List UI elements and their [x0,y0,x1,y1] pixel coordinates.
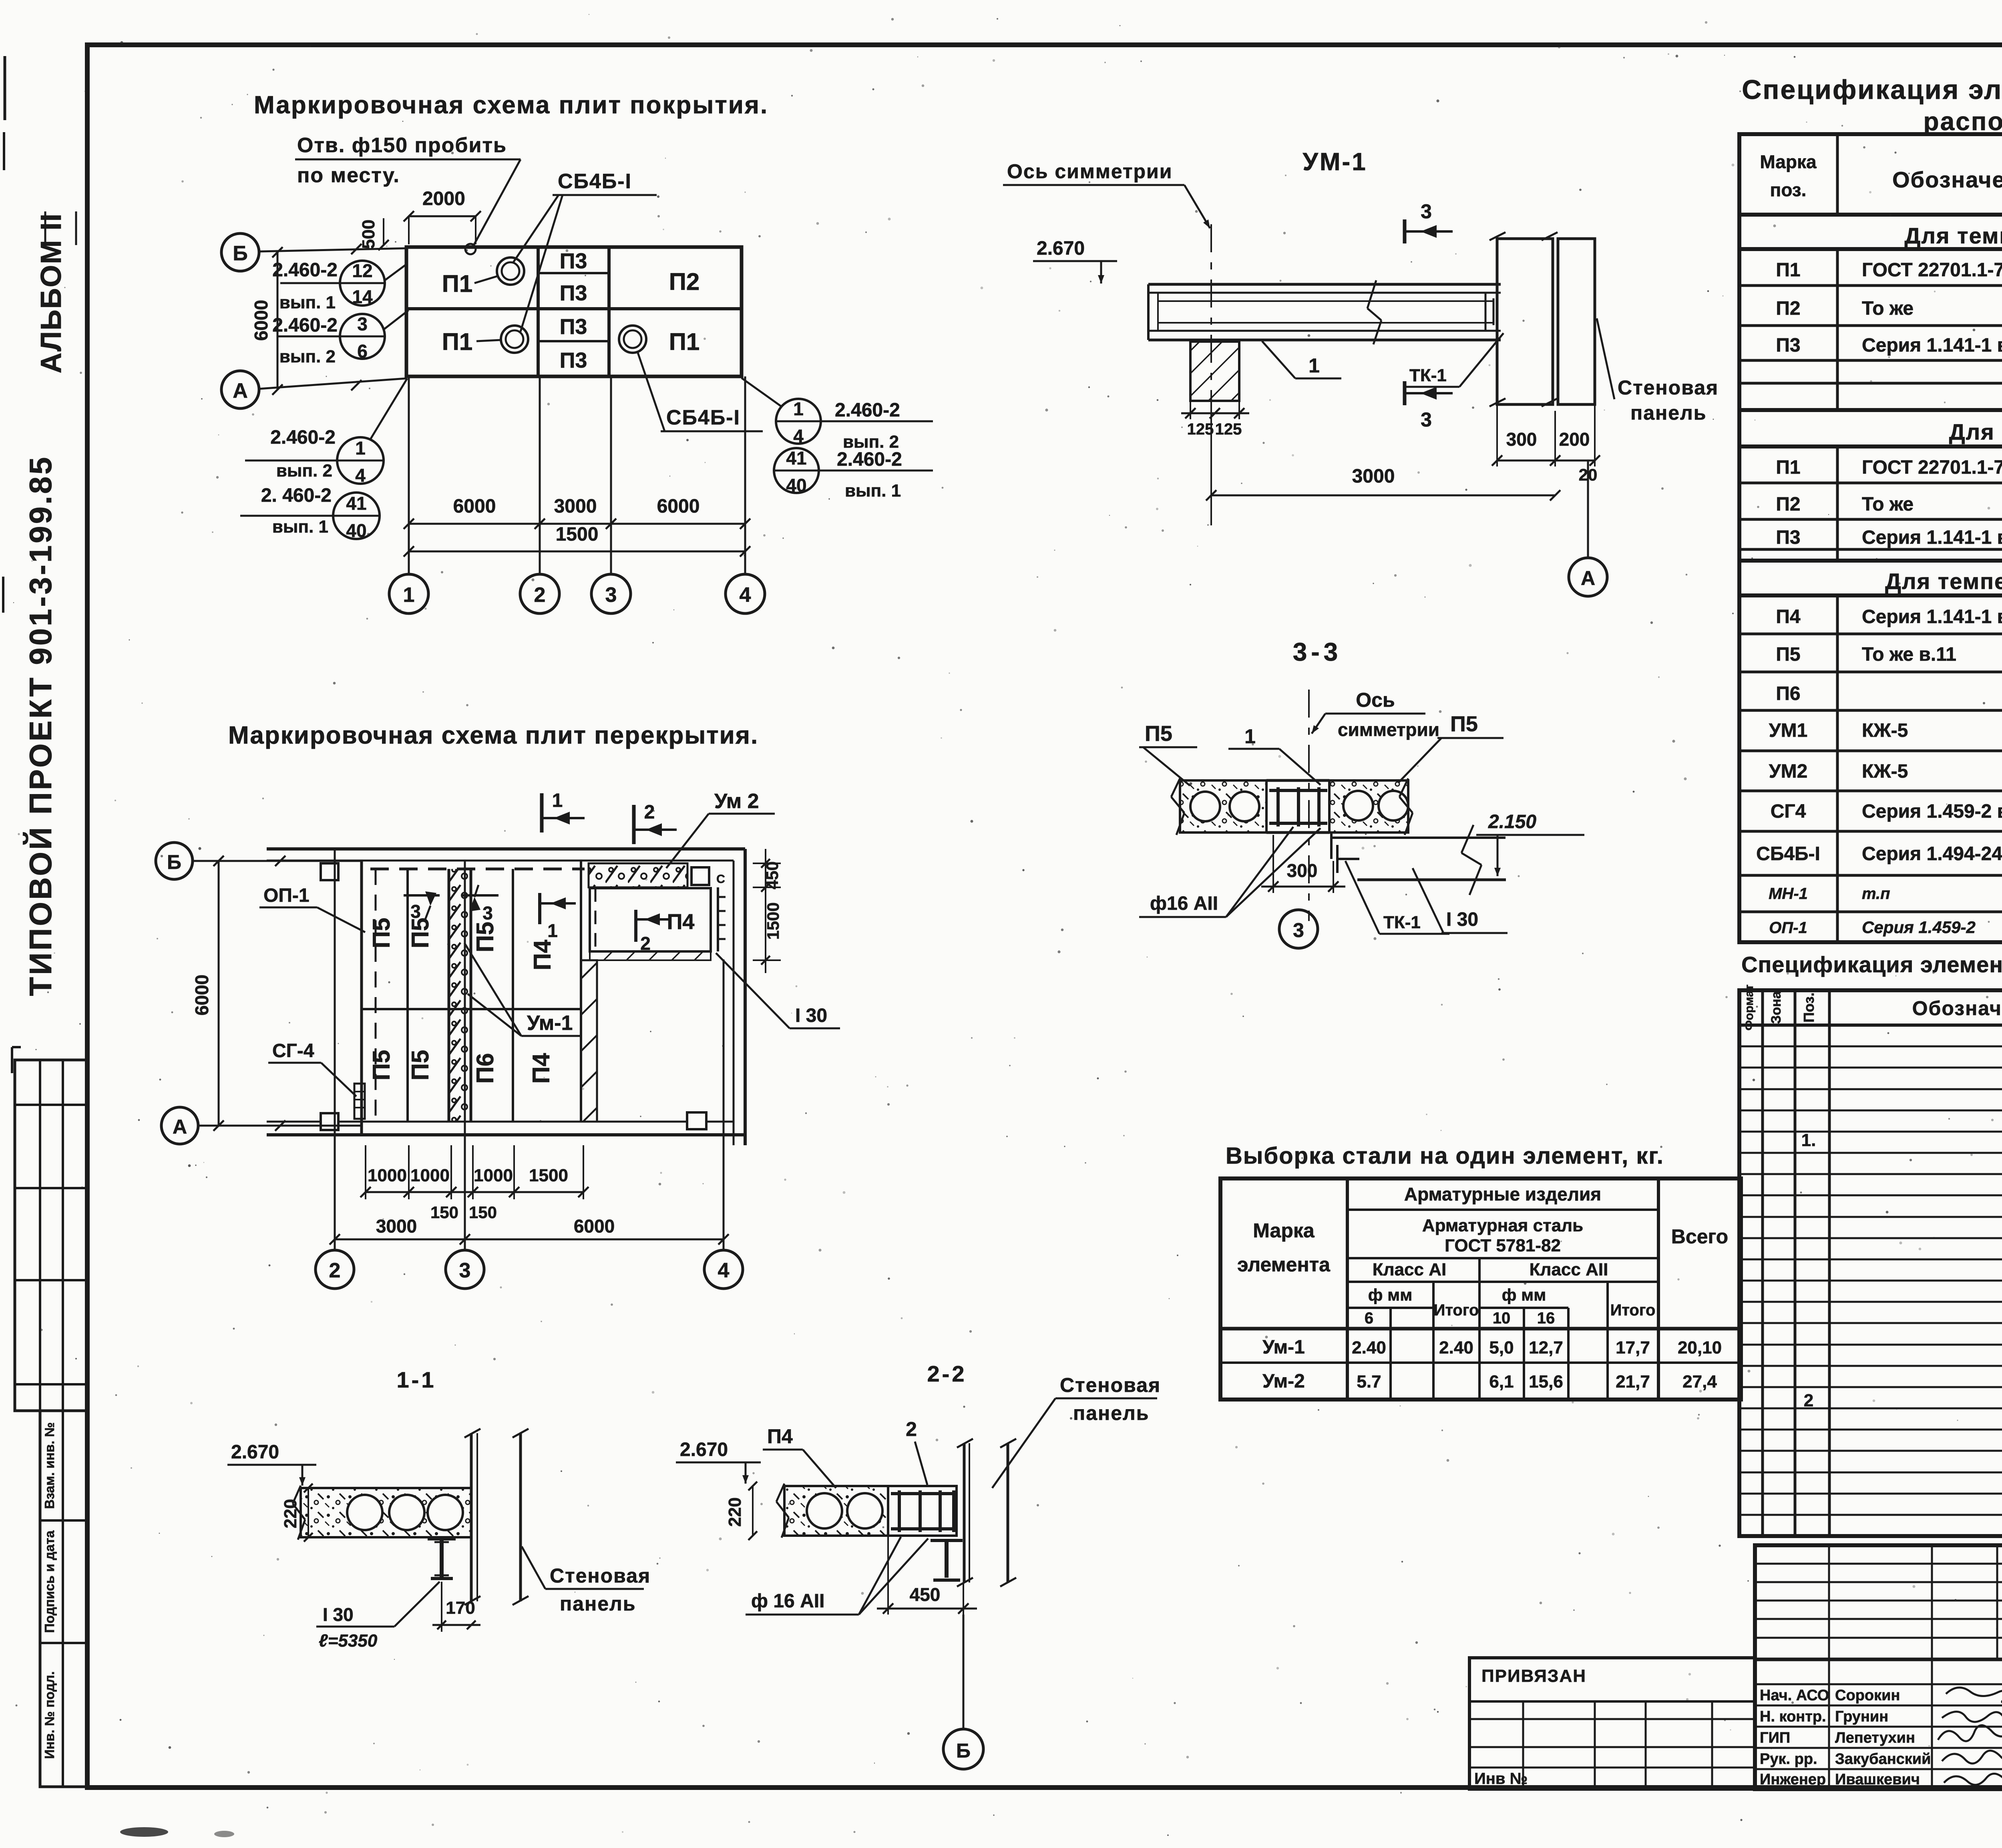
svg-text:Стеновая: Стеновая [550,1564,651,1587]
svg-text:П1: П1 [1776,259,1800,281]
svg-text:Стеновая: Стеновая [1060,1374,1161,1396]
svg-text:1: 1 [547,920,558,941]
svg-text:Класс АI: Класс АI [1373,1260,1446,1279]
svg-text:П1: П1 [1776,457,1800,478]
svg-text:Серия 1.494-24 в.1: Серия 1.494-24 в.1 [1862,843,2002,865]
plan2 mid line [362,1008,581,1010]
svg-text:ф16 АII: ф16 АII [1150,893,1218,914]
signatures [1946,1687,2002,1704]
svg-text:Ось симметрии: Ось симметрии [1007,160,1173,183]
svg-text:Н. контр.: Н. контр. [1760,1708,1826,1725]
dims 300 200 20 [1496,404,1498,467]
svg-text:П4: П4 [528,1053,555,1084]
svg-text:1000: 1000 [474,1166,513,1185]
grid verticals plan1 [408,376,410,574]
svg-text:вып. 1: вып. 1 [845,481,901,501]
svg-text:Серия 1.141-1 в.10: Серия 1.141-1 в.10 [1862,527,2002,548]
svg-text:1-1: 1-1 [397,1367,436,1392]
svg-text:панель: панель [1630,402,1707,424]
svg-text:АЛЬБОМ II: АЛЬБОМ II [35,213,67,374]
title block frame [1755,1545,2002,1789]
svg-text:СГ4: СГ4 [1771,801,1806,822]
svg-text:Ум-1: Ум-1 [1262,1337,1305,1358]
svg-text:4: 4 [355,465,366,486]
svg-text:125: 125 [1187,420,1214,438]
svg-text:2.670: 2.670 [680,1439,728,1460]
svg-text:ГОСТ 22701.1-77: ГОСТ 22701.1-77 [1862,259,2002,281]
svg-text:П1: П1 [442,270,473,297]
svg-text:ф 16 АII: ф 16 АII [751,1591,824,1612]
svg-text:П3: П3 [1776,335,1800,356]
MN-1 embedded mark right [717,887,719,951]
svg-text:6000: 6000 [453,496,496,517]
section flag 1 above plan2 [540,793,544,833]
svg-text:2.40: 2.40 [1352,1338,1386,1357]
svg-text:3: 3 [410,901,421,922]
svg-text:поз.: поз. [1770,179,1807,200]
svg-text:3000: 3000 [376,1216,417,1237]
monolith rebar (3-3) [1266,779,1329,782]
svg-text:Ум-1: Ум-1 [527,1011,573,1035]
svg-text:П3: П3 [560,348,587,372]
svg-text:П2: П2 [1776,494,1800,515]
svg-text:П6: П6 [1776,683,1800,704]
left staff column boxes [15,1060,87,1411]
spec1 frame [1739,134,2002,942]
svg-text:12: 12 [352,260,372,281]
bottom-left smudge [120,1827,168,1837]
svg-text:Маркировочная схема плит: Маркировочная схема плит перекрытия. [228,722,758,749]
plan2 slab dividers [406,869,409,1122]
svg-text:I 30: I 30 [1446,909,1478,930]
svg-text:Инв. № подл.: Инв. № подл. [42,1671,57,1759]
svg-text:Класс АII: Класс АII [1530,1260,1608,1279]
vertical hatched strip right of slabs [581,960,597,1122]
svg-text:УМ1: УМ1 [1769,720,1808,741]
svg-text:симметрии: симметрии [1338,719,1439,740]
svg-text:вып. 2: вып. 2 [279,347,336,366]
svg-text:Спецификация элементов монол: Спецификация элементов монолитных констр… [1741,952,2002,977]
svg-text:2-2: 2-2 [927,1361,967,1386]
svg-text:Зона: Зона [1769,991,1784,1024]
white column squares [321,863,338,880]
svg-text:П5: П5 [1776,644,1800,665]
svg-text:П5: П5 [472,922,498,953]
axis circle A [221,371,259,408]
svg-text:ПРИВЯЗАН: ПРИВЯЗАН [1481,1666,1586,1686]
svg-text:т.п: т.п [1862,885,1890,903]
bottom dim chain 1000s [365,1145,366,1199]
svg-text:3000: 3000 [1352,466,1395,487]
svg-text:10: 10 [1493,1309,1511,1327]
svg-text:150: 150 [469,1203,497,1222]
slab 2-2 monolith rebar part [888,1486,957,1536]
svg-text:2000: 2000 [422,188,465,209]
svg-text:300: 300 [1506,429,1537,450]
svg-text:Взам. инв. №: Взам. инв. № [42,1422,57,1509]
svg-text:То же: То же [1862,494,1914,515]
svg-text:ГОСТ 5781-82: ГОСТ 5781-82 [1445,1236,1561,1255]
svg-text:1: 1 [1309,354,1320,377]
svg-text:Серия 1.459-2 в.3: Серия 1.459-2 в.3 [1862,801,2002,822]
svg-text:Подпись и дата: Подпись и дата [42,1530,57,1633]
svg-text:Отв. ф150 пробить: Отв. ф150 пробить [297,134,507,157]
plan2 bottom wall band [267,1133,745,1136]
hatch band below P4 box [590,951,711,960]
svg-text:41: 41 [786,448,806,469]
svg-text:Формат: Формат [1743,984,1756,1030]
svg-text:2: 2 [644,802,655,823]
staff rows [1755,1683,2002,1685]
svg-text:2.670: 2.670 [1037,238,1085,259]
svg-text:I 30: I 30 [323,1604,354,1625]
svg-text:3: 3 [459,1259,471,1282]
svg-text:15,6: 15,6 [1529,1372,1563,1392]
svg-text:Обозначение: Обозначение [1912,997,2002,1020]
wall panel right [1558,239,1595,404]
svg-text:1: 1 [793,398,804,419]
svg-text:1: 1 [355,438,366,458]
SG-4 ladder symbol [354,1084,365,1119]
svg-text:П5: П5 [368,1050,395,1081]
I-beam (2-2) [931,1539,963,1542]
plan2 left wall [360,861,363,1135]
svg-text:2.460-2: 2.460-2 [272,315,338,336]
svg-text:4: 4 [718,1259,730,1282]
section mark 3 top [1403,219,1407,243]
svg-text:1000: 1000 [410,1166,450,1185]
svg-text:3000: 3000 [554,496,597,517]
stakan circles [497,257,524,285]
svg-text:6: 6 [1365,1309,1373,1327]
svg-text:5,0: 5,0 [1489,1338,1514,1357]
axis line B [259,248,406,251]
svg-text:Серия 1.141-1 в.10: Серия 1.141-1 в.10 [1862,335,2002,356]
plan2 top wall band [267,847,745,851]
P4 box top right [590,888,711,951]
svg-text:панель: панель [560,1593,636,1615]
svg-text:вып. 1: вып. 1 [279,293,336,312]
svg-text:Для температуры tн=-20°С ;: Для температуры tн=-20°С ; -30°С ; - 40°… [1885,569,2002,594]
svg-text:Для температуры tн=-40°С.: Для температуры tн=-40°С. [1949,419,2002,444]
svg-text:ТК-1: ТК-1 [1383,913,1421,932]
svg-text:Инженер: Инженер [1760,1771,1826,1788]
svg-text:Марка: Марка [1760,151,1817,172]
svg-text:20,10: 20,10 [1678,1338,1722,1357]
svg-text:П3: П3 [1776,527,1800,548]
grid verticals plan2 [334,848,336,1250]
svg-text:3: 3 [1421,200,1432,223]
svg-text:3: 3 [1421,408,1432,431]
svg-text:3: 3 [482,903,493,923]
svg-text:П4: П4 [529,939,556,970]
svg-text:4: 4 [740,583,751,607]
svg-text:16: 16 [1537,1309,1555,1327]
svg-text:П2: П2 [1776,298,1800,319]
svg-text:А: А [173,1116,187,1138]
svg-text:Арматурная сталь: Арматурная сталь [1422,1216,1583,1235]
svg-text:ОП-1: ОП-1 [263,885,310,906]
slab 1-1 [301,1488,471,1537]
svg-text:Спецификация элементов к ма: Спецификация элементов к маркировочным с… [1742,74,2002,105]
svg-text:Обозначение: Обозначение [1892,167,2002,192]
svg-text:2: 2 [906,1418,917,1440]
svg-text:УМ2: УМ2 [1769,761,1808,782]
svg-text:Ось: Ось [1356,689,1395,711]
axis of symmetry line [1210,224,1212,525]
plan2 right wall [733,861,735,1145]
wall 2-2 [963,1443,966,1583]
svg-text:6000: 6000 [251,300,271,341]
dim chain 6000 3000 6000 [409,523,745,525]
svg-text:Нач. АСО: Нач. АСО [1760,1687,1829,1704]
slab 2-2 hollow part [784,1486,888,1536]
bottom dim chain 3000 6000 [335,1239,724,1241]
svg-text:1500: 1500 [764,902,782,939]
svg-text:220: 220 [725,1497,745,1526]
svg-text:Б: Б [167,851,181,873]
svg-text:2.460-2: 2.460-2 [272,259,338,281]
svg-text:Для температуры tн=-20°С,: Для температуры tн=-20°С, tн=-30°С [1904,223,2002,248]
svg-text:П6: П6 [472,1053,498,1084]
svg-text:Грунин: Грунин [1835,1708,1888,1725]
grid circle 3 (3-3) [1279,910,1318,948]
svg-text:220: 220 [281,1499,300,1528]
hole marker [465,244,476,254]
svg-text:вып. 2: вып. 2 [276,461,332,481]
svg-text:2.40: 2.40 [1439,1338,1473,1357]
scan edge marks left [4,56,6,120]
svg-text:200: 200 [1559,429,1590,450]
svg-text:3-3: 3-3 [1293,637,1342,666]
svg-text:6000: 6000 [657,496,700,517]
wall 1-1 [470,1433,473,1601]
svg-text:2: 2 [1804,1391,1813,1410]
callout 1/4 right [776,399,821,444]
svg-text:расположенным на листе.: расположенным на листе. [1923,107,2002,136]
svg-text:Сорокин: Сорокин [1835,1687,1900,1704]
svg-text:П1: П1 [442,328,473,355]
svg-text:Рук. рр.: Рук. рр. [1760,1751,1817,1768]
svg-text:панель: панель [1073,1402,1150,1424]
svg-text:ГИП: ГИП [1760,1729,1790,1746]
svg-text:СБ4Б-I: СБ4Б-I [666,406,740,429]
svg-text:12,7: 12,7 [1529,1338,1563,1357]
svg-text:Марка: Марка [1253,1219,1315,1242]
staff label cells [40,1411,87,1787]
svg-text:1000: 1000 [368,1166,407,1185]
svg-text:ГОСТ 22701.1-77: ГОСТ 22701.1-77 [1862,457,2002,478]
svg-text:То же: То же [1862,298,1914,319]
plan1 outline [406,247,742,376]
svg-text:ф мм: ф мм [1502,1285,1546,1304]
svg-text:П5: П5 [407,1050,434,1081]
svg-text:А: А [233,379,248,402]
grid circles 2 3 4 (plan2) [316,1250,354,1289]
svg-text:17,7: 17,7 [1616,1338,1650,1357]
svg-text:Б: Б [956,1739,971,1762]
svg-text:I 30: I 30 [795,1005,827,1026]
title block left small grid [1755,1563,2002,1565]
svg-text:П5: П5 [1450,712,1478,736]
svg-text:КЖ-5: КЖ-5 [1862,761,1908,782]
svg-text:СГ-4: СГ-4 [272,1040,314,1062]
monolith slab band [1148,283,1501,286]
grid circles 1 2 3 4 [389,574,428,613]
spec2 frame [1739,990,2002,1536]
svg-text:41: 41 [346,493,366,514]
svg-text:6: 6 [357,341,368,362]
svg-text:2: 2 [329,1259,341,1282]
svg-text:2.150: 2.150 [1488,811,1536,833]
svg-text:Лепетухин: Лепетухин [1835,1729,1915,1746]
svg-text:150: 150 [430,1203,458,1222]
svg-text:Стеновая: Стеновая [1618,376,1719,399]
svg-text:Серия 1.459-2: Серия 1.459-2 [1862,918,1976,937]
svg-text:П3: П3 [560,249,587,273]
section flag 2 above plan2 [632,805,636,844]
section mark 3 bottom [1403,381,1407,405]
section cut 1 mark inside plan2 [538,893,541,924]
svg-text:по месту.: по месту. [297,164,400,187]
svg-text:3: 3 [357,314,368,334]
svg-text:П3: П3 [560,281,587,305]
svg-text:27,4: 27,4 [1682,1372,1717,1392]
svg-text:6,1: 6,1 [1489,1372,1514,1392]
svg-text:Итого: Итого [1434,1301,1479,1319]
svg-text:125: 125 [1215,420,1242,438]
svg-text:СБ4Б-I: СБ4Б-I [1756,843,1820,865]
svg-text:Ум-2: Ум-2 [1262,1371,1305,1392]
svg-text:Закубанский: Закубанский [1835,1751,1931,1768]
dim 3000 [1210,401,1212,501]
svg-text:300: 300 [1287,860,1318,881]
dims 125 125 [1190,401,1191,419]
vyborka table frame [1220,1178,1741,1400]
svg-text:6000: 6000 [574,1216,615,1237]
svg-text:С: С [716,873,725,886]
callout 41/40 right [774,448,819,493]
svg-text:2.460-2: 2.460-2 [835,400,900,421]
svg-text:КЖ-5: КЖ-5 [1862,720,1908,741]
hatched support column [1190,342,1239,401]
svg-text:14: 14 [352,286,373,307]
svg-text:Поз.: Поз. [1801,992,1817,1022]
plan2 dashed top line [370,868,585,871]
svg-text:2: 2 [534,583,546,607]
svg-text:5.7: 5.7 [1357,1372,1381,1392]
svg-text:ТК-1: ТК-1 [1409,366,1447,385]
svg-text:40: 40 [786,475,806,496]
grid line to circle B [963,1615,965,1729]
axis line A [259,378,406,389]
svg-text:3: 3 [1293,919,1304,941]
svg-text:УМ-1: УМ-1 [1303,148,1367,176]
dim chain 15000 [409,551,745,553]
svg-text:ℓ=5350: ℓ=5350 [319,1631,378,1651]
svg-text:П4: П4 [667,910,695,934]
svg-text:МН-1: МН-1 [1769,885,1808,903]
svg-text:П3: П3 [560,315,587,339]
svg-text:21,7: 21,7 [1616,1372,1650,1392]
svg-text:П4: П4 [767,1425,793,1448]
svg-text:2. 460-2: 2. 460-2 [261,485,332,506]
svg-text:170: 170 [446,1598,475,1618]
svg-text:ОП-1: ОП-1 [1769,919,1807,937]
svg-text:Серия 1.141-1 в.10: Серия 1.141-1 в.10 [1862,606,2002,627]
svg-text:Итого: Итого [1610,1301,1656,1319]
svg-text:Б: Б [233,242,247,265]
svg-text:40: 40 [346,520,366,541]
I-beam below slab (1-1) [428,1537,456,1540]
svg-text:Арматурные изделия: Арматурные изделия [1404,1184,1601,1205]
svg-text:1.: 1. [1801,1130,1816,1150]
svg-text:2.460-2: 2.460-2 [837,449,902,470]
svg-text:Инв №: Инв № [1474,1770,1528,1788]
svg-text:вып. 1: вып. 1 [272,517,328,537]
wall panel left [1497,239,1553,404]
svg-text:Всего: Всего [1671,1225,1728,1248]
svg-text:6000: 6000 [191,975,212,1015]
svg-text:450: 450 [910,1584,941,1605]
svg-text:П4: П4 [1776,606,1801,627]
svg-text:4: 4 [793,426,804,446]
svg-text:элемента: элемента [1237,1253,1331,1276]
svg-text:2.670: 2.670 [231,1442,279,1463]
svg-text:3: 3 [605,583,617,607]
svg-text:П5: П5 [1145,722,1172,746]
svg-text:1500: 1500 [529,1166,568,1185]
axis circle B [221,233,259,271]
svg-text:П5: П5 [368,918,395,949]
svg-text:1: 1 [403,583,415,607]
svg-text:ТИПОВОЙ ПРОЕКТ 901-3-199.85: ТИПОВОЙ ПРОЕКТ 901-3-199.85 [23,455,58,996]
svg-text:1: 1 [552,790,563,811]
privyazan box [1469,1658,1755,1789]
axis circles B A (plan2) [156,843,193,879]
svg-text:2.460-2: 2.460-2 [270,427,336,448]
slab band 3-3 [1180,780,1266,833]
svg-text:П1: П1 [669,328,700,355]
svg-text:П5: П5 [407,918,434,949]
svg-text:То же в.11: То же в.11 [1862,644,1956,665]
svg-text:Маркировочная схема плит по: Маркировочная схема плит покрытия. [254,91,768,119]
top-right hatch band (Um2) [589,863,687,887]
axis circle A (UM-1) [1587,460,1589,558]
svg-text:Ивашкевич: Ивашкевич [1835,1771,1920,1788]
svg-text:Ум 2: Ум 2 [714,790,759,813]
svg-text:1500: 1500 [556,524,599,545]
svg-text:СБ4Б-I: СБ4Б-I [558,170,632,193]
svg-text:П2: П2 [669,268,700,295]
beam ledge below (3-3) [1330,833,1333,859]
svg-text:А: А [1581,567,1595,589]
svg-text:Выборка стали на один элем: Выборка стали на один элемент, кг. [1226,1143,1664,1169]
monolith strip UM-1 hatched [449,869,471,1122]
svg-text:ф мм: ф мм [1368,1285,1413,1304]
